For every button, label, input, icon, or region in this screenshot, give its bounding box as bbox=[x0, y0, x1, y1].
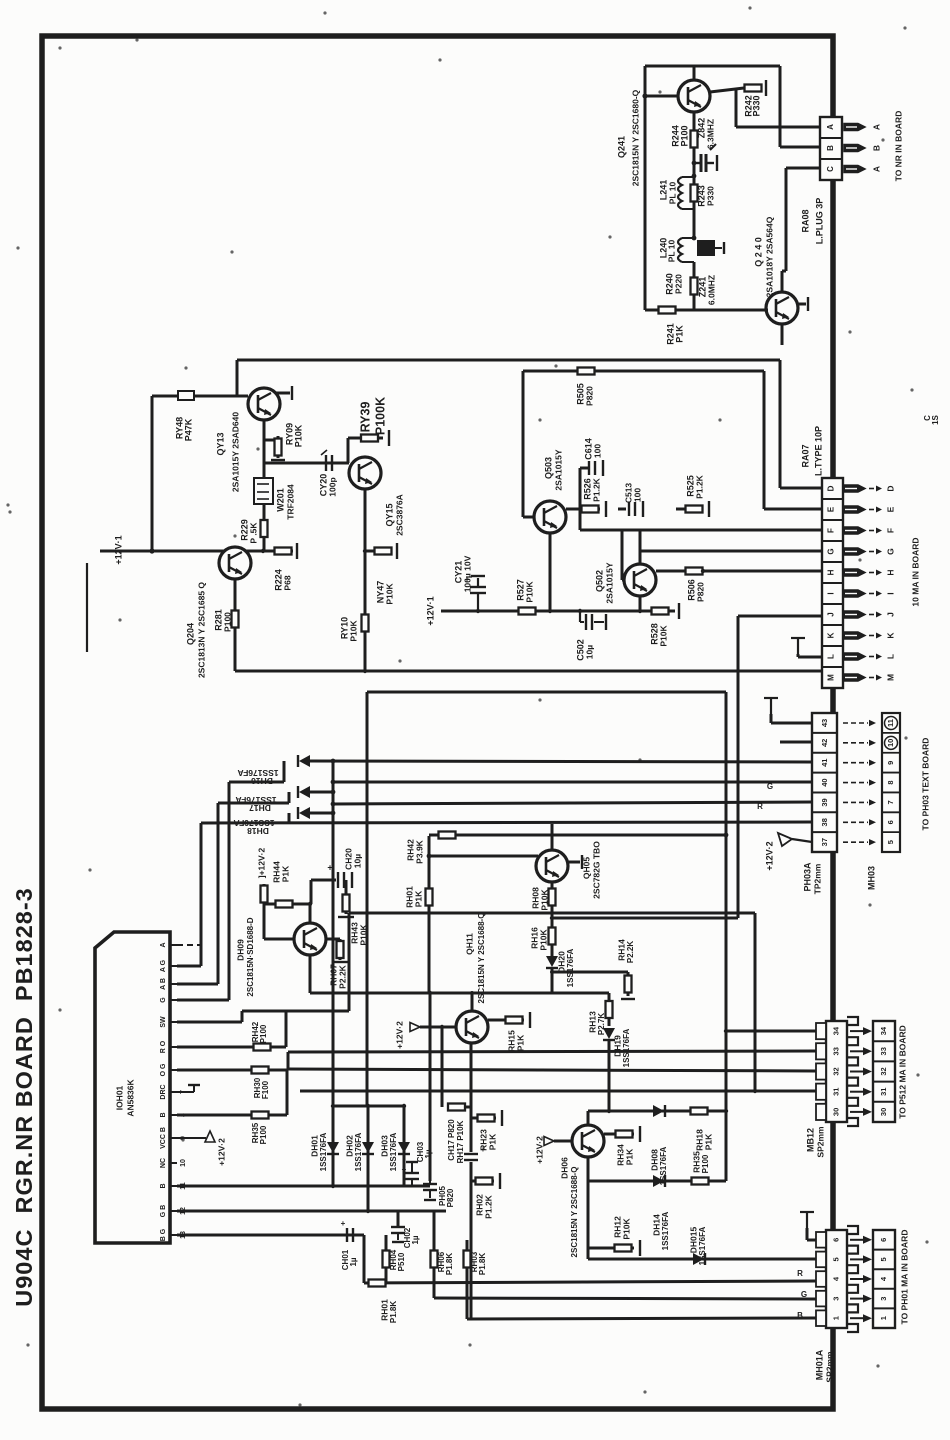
label R229 value bbox=[248, 522, 258, 544]
wire C branch h bbox=[782, 270, 786, 273]
label RH42b value bbox=[259, 1024, 268, 1043]
svg-text:Q241: Q241 bbox=[616, 136, 626, 158]
wire top rail bbox=[237, 359, 780, 362]
svg-text:PH03A: PH03A bbox=[802, 862, 812, 892]
wire x349 up bbox=[348, 913, 351, 1011]
label CH17 bbox=[447, 1119, 456, 1161]
svg-text:10: 10 bbox=[180, 1159, 187, 1167]
junction DH03 bus bbox=[402, 1104, 406, 1108]
svg-text:RH35: RH35 bbox=[691, 1151, 701, 1173]
wire Q240 top bbox=[781, 271, 784, 292]
label RH18 value bbox=[703, 1133, 713, 1150]
junction y1111 bbox=[607, 1109, 611, 1113]
svg-text:P820: P820 bbox=[584, 386, 594, 406]
wire RY39 drop bbox=[347, 438, 350, 463]
svg-text:F: F bbox=[885, 528, 895, 533]
svg-text:31: 31 bbox=[831, 1088, 840, 1096]
label R528 bbox=[649, 623, 659, 645]
label TO PH03 TEXT BOARD bbox=[920, 738, 930, 831]
label RH42 bbox=[405, 839, 415, 861]
svg-text:P820: P820 bbox=[446, 1188, 455, 1207]
wire y913 bbox=[349, 912, 755, 915]
label TO PH01 MA IN BOARD bbox=[899, 1230, 909, 1325]
pin RA07-G bbox=[843, 548, 895, 555]
label RA07 bbox=[800, 444, 810, 467]
svg-text:P1.8K: P1.8K bbox=[445, 1253, 454, 1275]
wire DH09 base bbox=[264, 938, 294, 941]
svg-text:P220: P220 bbox=[673, 274, 683, 294]
label R281 bbox=[213, 609, 223, 631]
svg-text:3: 3 bbox=[879, 1297, 888, 1301]
pin RA07-K bbox=[843, 632, 895, 639]
hook L bbox=[791, 638, 805, 654]
svg-text:P100: P100 bbox=[259, 1125, 268, 1144]
wire pin1 dashed bbox=[177, 944, 200, 946]
svg-text:DH06: DH06 bbox=[559, 1157, 569, 1179]
svg-text:DH09: DH09 bbox=[235, 939, 245, 961]
svg-text:P1K: P1K bbox=[413, 890, 423, 907]
svg-text:G: G bbox=[160, 997, 167, 1003]
label RH34 bbox=[615, 1144, 625, 1166]
label DH08 type bbox=[659, 1146, 668, 1185]
IC pin NC 10 bbox=[160, 1158, 187, 1168]
IC pin R O bbox=[160, 1040, 177, 1053]
label CY21 bbox=[453, 561, 463, 584]
junction x726 y1111 bbox=[724, 1109, 728, 1113]
wire DH09 base drop bbox=[263, 904, 266, 939]
svg-text:33: 33 bbox=[879, 1047, 888, 1055]
junction pin11 DH01 bbox=[331, 1184, 335, 1188]
pin RA07-F bbox=[843, 527, 895, 534]
label PH05 value bbox=[446, 1188, 455, 1207]
terminal RY39 bbox=[388, 430, 390, 446]
label DH14 type bbox=[661, 1211, 670, 1250]
svg-text:E: E bbox=[885, 506, 895, 512]
label QY15 type bbox=[394, 494, 404, 536]
label DH16 bbox=[237, 768, 278, 778]
label NY47 bbox=[375, 581, 385, 604]
label R243 value bbox=[705, 186, 715, 206]
wire DH16 left v bbox=[283, 761, 286, 782]
junction QH11 base bbox=[440, 1025, 444, 1029]
diode DH18 bbox=[298, 807, 310, 819]
IC pin A G bbox=[160, 959, 177, 972]
wire pin2 to DH18col bbox=[177, 965, 201, 968]
symbol +12V-2 pin9 bbox=[177, 1131, 215, 1142]
svg-text:VCC B: VCC B bbox=[160, 1127, 167, 1149]
capacitor CY20 bbox=[321, 450, 332, 471]
label Q240 type bbox=[764, 216, 774, 297]
wire +12V-1 rail left bbox=[100, 550, 263, 553]
resistor RH03 bbox=[464, 1248, 471, 1270]
wire pin13 drop bbox=[363, 1235, 366, 1283]
wire bus 32 bbox=[287, 1069, 816, 1071]
label DH14 bbox=[651, 1214, 661, 1236]
svg-text:RY39: RY39 bbox=[358, 402, 372, 433]
pin RA07-J bbox=[843, 611, 895, 618]
svg-text:P68: P68 bbox=[282, 575, 292, 590]
wire E drop bbox=[763, 371, 766, 509]
label RH30 bbox=[253, 1077, 262, 1098]
label RH07 bbox=[328, 964, 338, 986]
wire QH06 emitter bbox=[587, 1157, 590, 1259]
junction QH11 c bbox=[470, 991, 474, 995]
resistor R527 bbox=[512, 608, 542, 615]
svg-text:7: 7 bbox=[886, 800, 895, 804]
transistor Q241 bbox=[678, 80, 710, 112]
junction left rail bbox=[149, 548, 154, 553]
pin RA07-L bbox=[843, 653, 895, 660]
label Z842 bbox=[696, 118, 706, 139]
wire CH02 stub bbox=[397, 1211, 400, 1226]
label RH01a bbox=[404, 886, 414, 908]
diode DH01 bbox=[327, 1142, 339, 1154]
resistor RH14 bbox=[625, 972, 632, 996]
wire osc right bbox=[779, 66, 782, 147]
svg-text:2SA1018Y 2SA564Q: 2SA1018Y 2SA564Q bbox=[764, 216, 774, 297]
svg-text:RH13: RH13 bbox=[587, 1011, 597, 1033]
arrow MB12-34 bbox=[850, 1027, 872, 1035]
svg-text:MH03: MH03 bbox=[866, 866, 876, 890]
resistor RH13 bbox=[606, 993, 613, 1026]
svg-text:CH17 P820: CH17 P820 bbox=[447, 1119, 456, 1161]
label RY39 bbox=[358, 402, 372, 433]
label QH05 bbox=[581, 857, 591, 879]
svg-text:1S: 1S bbox=[931, 414, 940, 424]
label DH16 name bbox=[251, 776, 273, 786]
svg-text:B G: B G bbox=[160, 1228, 167, 1241]
resistor RH15 bbox=[504, 1017, 524, 1024]
connector MH03 bbox=[882, 713, 900, 852]
capacitor CH17 bbox=[463, 1145, 486, 1162]
wire R240 to bottom bbox=[693, 295, 696, 310]
svg-text:L.PLUG 3P: L.PLUG 3P bbox=[814, 198, 824, 245]
wire D drop bbox=[779, 360, 782, 488]
label RH35 value bbox=[701, 1154, 710, 1173]
svg-text:34: 34 bbox=[831, 1026, 840, 1035]
label RH13 value bbox=[597, 1013, 606, 1035]
label QY13 bbox=[215, 432, 225, 455]
svg-text:MH01A: MH01A bbox=[814, 1349, 824, 1380]
svg-text:P2.2K: P2.2K bbox=[337, 964, 347, 988]
terminal R224 bbox=[296, 543, 298, 559]
svg-text:100p: 100p bbox=[327, 477, 337, 496]
wire Q503 left vert bbox=[522, 371, 525, 517]
wire QH06 base bbox=[554, 1140, 572, 1143]
wire RH06 bot bbox=[433, 1270, 436, 1298]
wire DH18 tap bbox=[288, 813, 291, 823]
wire y993 bbox=[310, 992, 609, 995]
svg-text:B: B bbox=[826, 145, 835, 151]
svg-text:AN5836K: AN5836K bbox=[125, 1078, 135, 1116]
arrow PH03A-4 bbox=[843, 799, 876, 805]
IC pin SW bbox=[160, 1016, 177, 1028]
label RH07 value bbox=[337, 964, 347, 988]
label Q241 type bbox=[630, 89, 640, 186]
wire C branch bbox=[785, 168, 788, 271]
label RH08 value bbox=[539, 889, 549, 911]
svg-text:41: 41 bbox=[820, 759, 829, 767]
svg-text:A: A bbox=[871, 124, 881, 130]
diode DH14 bbox=[653, 1175, 665, 1187]
svg-text:3: 3 bbox=[831, 1297, 840, 1301]
label QY13 type bbox=[230, 412, 240, 492]
label CH03 bbox=[416, 1141, 425, 1162]
label RH43 value bbox=[358, 924, 368, 946]
arrow PH03A-2 bbox=[843, 760, 876, 766]
svg-text:+12V·1: +12V·1 bbox=[113, 535, 123, 564]
label Q240 bbox=[753, 237, 763, 267]
label +12V-2 pin9 bbox=[216, 1138, 226, 1166]
capacitor CH03 bbox=[402, 1162, 419, 1186]
label QH05 type bbox=[591, 841, 601, 899]
wire CH20 vert bbox=[310, 880, 313, 904]
svg-text:DRC: DRC bbox=[160, 1084, 167, 1099]
capacitor CH02 bbox=[391, 1227, 405, 1242]
label QH06 type bbox=[570, 1167, 579, 1258]
transistor Q502 bbox=[624, 564, 656, 596]
svg-text:B: B bbox=[797, 1311, 803, 1320]
label CY20 bbox=[318, 474, 328, 497]
label Q503 type bbox=[553, 449, 563, 490]
wire bus 1283 bbox=[364, 1281, 816, 1283]
svg-text:2SA1015Y: 2SA1015Y bbox=[604, 562, 614, 603]
svg-text:L.TYPE 10P: L.TYPE 10P bbox=[813, 426, 823, 476]
svg-text:P1K: P1K bbox=[515, 1034, 525, 1051]
transistor QH05 bbox=[536, 850, 568, 882]
resistor RH35b bbox=[250, 1112, 270, 1119]
label R229 bbox=[239, 519, 249, 541]
wire bus 33 bbox=[288, 1051, 816, 1052]
svg-text:O G: O G bbox=[160, 1063, 167, 1076]
junction L241 top bbox=[692, 174, 697, 179]
pin RA07-E bbox=[843, 506, 895, 513]
svg-text:1µ: 1µ bbox=[349, 1257, 358, 1266]
label W201 bbox=[275, 488, 285, 512]
svg-text:DH16: DH16 bbox=[251, 776, 273, 786]
wire RH04 top bbox=[385, 1235, 388, 1250]
resistor RH04 bbox=[383, 1248, 390, 1270]
wire line4 col bbox=[200, 823, 203, 966]
svg-text:+12V·2: +12V·2 bbox=[394, 1021, 404, 1049]
arrow MB12-32 bbox=[850, 1068, 872, 1076]
svg-text:I: I bbox=[885, 592, 895, 594]
svg-text:H: H bbox=[885, 569, 895, 575]
svg-text:Q503: Q503 bbox=[543, 457, 553, 479]
label CH20 value bbox=[352, 854, 362, 868]
svg-text:K: K bbox=[885, 632, 895, 639]
svg-text:42: 42 bbox=[820, 739, 829, 747]
IC pin DRC 7 bbox=[160, 1084, 187, 1099]
label C513 value bbox=[632, 488, 642, 502]
label MB12 pitch bbox=[815, 1126, 825, 1158]
wire Q502 collector bbox=[639, 530, 642, 564]
arrow +12V-2 cell37 bbox=[778, 833, 812, 846]
label W201 type bbox=[285, 484, 295, 520]
wire DH09 e2 bbox=[309, 955, 312, 993]
label RY48 bbox=[174, 417, 184, 439]
terminal C614 bbox=[602, 460, 604, 476]
wire DH17 line bbox=[308, 791, 333, 794]
svg-text:J: J bbox=[885, 612, 895, 617]
wire pin11 bbox=[177, 1185, 430, 1188]
svg-text:1SS176FA: 1SS176FA bbox=[354, 1132, 363, 1171]
label RH35b value bbox=[259, 1125, 268, 1144]
resistor RH30 bbox=[250, 1067, 270, 1074]
svg-text:DH20: DH20 bbox=[556, 951, 566, 973]
label R281 value bbox=[222, 612, 232, 632]
label R528 value bbox=[658, 625, 668, 647]
svg-text:38: 38 bbox=[820, 818, 829, 826]
terminal QY13 bbox=[291, 386, 293, 400]
junction QY15-NY47 bbox=[363, 549, 367, 553]
svg-text:P3.9K: P3.9K bbox=[414, 839, 424, 863]
wire RH01 col low bbox=[429, 993, 432, 1181]
terminal RH14 bbox=[621, 998, 635, 1000]
svg-text:P47K: P47K bbox=[183, 418, 193, 441]
junction pin12 DH02 bbox=[366, 1209, 370, 1213]
resistor R224 bbox=[273, 548, 293, 555]
label RY09 value bbox=[293, 424, 303, 447]
svg-text:30: 30 bbox=[879, 1108, 888, 1116]
hook MH01A bbox=[800, 1212, 814, 1228]
arrow MH01A-1 bbox=[850, 1314, 872, 1322]
svg-text:TO PH01 MA IN BOARD: TO PH01 MA IN BOARD bbox=[899, 1230, 909, 1325]
resistor NY47 bbox=[374, 548, 392, 555]
wire line4 bbox=[201, 822, 812, 823]
label CH03 value bbox=[424, 1149, 433, 1158]
svg-text:+12V·2: +12V·2 bbox=[764, 841, 774, 870]
label R244 bbox=[670, 125, 680, 147]
label RH14 bbox=[616, 939, 626, 961]
IC pin G B 12 bbox=[160, 1205, 187, 1217]
wire RH42 row bbox=[429, 834, 726, 837]
svg-text:31: 31 bbox=[879, 1088, 888, 1096]
svg-text:33: 33 bbox=[831, 1047, 840, 1055]
transistor DH09 bbox=[294, 923, 326, 955]
connector MB12 bbox=[816, 1017, 858, 1126]
svg-text:B: B bbox=[871, 145, 881, 151]
label RH13 bbox=[587, 1011, 597, 1033]
label +12V-2 cell37 bbox=[764, 841, 774, 870]
wire left vertical bbox=[151, 396, 154, 551]
wire C614 stub bbox=[580, 467, 588, 470]
svg-text:10 MA IN BOARD: 10 MA IN BOARD bbox=[910, 537, 920, 606]
label RH06 value bbox=[445, 1253, 454, 1275]
wire osc bottom bbox=[645, 309, 768, 312]
svg-text:2SC3876A: 2SC3876A bbox=[394, 494, 404, 536]
label RH16 bbox=[529, 927, 539, 949]
wire DH14 row bbox=[588, 1180, 726, 1183]
svg-text:6: 6 bbox=[886, 820, 895, 824]
label RH03 value bbox=[478, 1253, 487, 1275]
wire hook MH01A h bbox=[807, 1239, 816, 1242]
label B MH01A bbox=[797, 1311, 803, 1320]
label CH01 value bbox=[349, 1257, 358, 1266]
svg-text:SP2mm: SP2mm bbox=[824, 1351, 834, 1383]
terminal RH07 bbox=[332, 961, 348, 963]
svg-text:K: K bbox=[827, 632, 836, 638]
svg-text:6.0MHZ: 6.0MHZ bbox=[706, 275, 716, 305]
transistor QY13 bbox=[248, 388, 280, 420]
svg-text:TRF2084: TRF2084 bbox=[285, 484, 295, 520]
label RH30 value bbox=[261, 1080, 270, 1099]
resistor RH34 bbox=[614, 1131, 634, 1138]
resistor RH35 bbox=[688, 1178, 712, 1185]
arrow +12V-2 QH06 bbox=[544, 1137, 554, 1146]
wire x755 down bbox=[754, 913, 757, 1091]
wire L240 to R240 bbox=[693, 262, 696, 277]
label R MH01A bbox=[797, 1269, 803, 1278]
svg-text:P330: P330 bbox=[705, 186, 715, 206]
label +12V-2 DH09 bbox=[256, 847, 266, 878]
svg-text:G: G bbox=[885, 548, 895, 555]
terminal R525 bbox=[708, 501, 710, 517]
terminal QH05 bbox=[581, 855, 583, 869]
svg-text:P1.8K: P1.8K bbox=[478, 1253, 487, 1275]
svg-text:PL 10: PL 10 bbox=[667, 181, 677, 204]
svg-text:QH11: QH11 bbox=[464, 933, 474, 955]
svg-text:A: A bbox=[826, 124, 835, 130]
svg-text:P10K: P10K bbox=[293, 424, 303, 447]
label RH01b value bbox=[389, 1301, 398, 1323]
svg-text:P1.8K: P1.8K bbox=[389, 1301, 398, 1323]
wire DH18 line bbox=[308, 812, 333, 815]
wire cell5 bus bbox=[588, 1258, 816, 1261]
pin RA08-A bbox=[844, 124, 881, 131]
svg-text:L: L bbox=[885, 654, 895, 659]
resistor RH02 bbox=[474, 1178, 494, 1185]
svg-text:M: M bbox=[885, 674, 895, 681]
label TO NR IN BOARD bbox=[893, 111, 903, 182]
junction CY21 bbox=[476, 609, 480, 613]
label Z241 freq bbox=[706, 275, 716, 305]
wire pin13 bbox=[177, 1234, 364, 1237]
svg-text:M: M bbox=[827, 674, 836, 681]
label DH19 type bbox=[622, 1028, 631, 1067]
terminal R526 bbox=[605, 501, 607, 517]
wire DH17 left h bbox=[218, 802, 289, 805]
wire RH02 row bbox=[471, 1180, 476, 1183]
svg-text:P100: P100 bbox=[679, 125, 689, 146]
label MH01A bbox=[814, 1349, 824, 1380]
wire QH11 base branch bbox=[441, 1027, 444, 1107]
resistor RH12 bbox=[612, 1245, 634, 1252]
wire J vert bbox=[737, 616, 740, 918]
svg-text:39: 39 bbox=[820, 798, 829, 806]
arrow PH03A-6 bbox=[843, 839, 876, 845]
label DH17 bbox=[235, 795, 276, 805]
label MH03 bbox=[866, 866, 876, 890]
label RH17 bbox=[456, 1120, 465, 1163]
label R224 value bbox=[282, 575, 292, 590]
wire cell34 h bbox=[726, 1030, 816, 1033]
arrow MB12-30 bbox=[850, 1108, 872, 1116]
wire QY13 top-left bbox=[152, 395, 248, 398]
svg-text:P1.2K: P1.2K bbox=[591, 477, 601, 501]
svg-text:P .5K: P .5K bbox=[248, 522, 258, 544]
svg-text:F100: F100 bbox=[261, 1080, 270, 1099]
label DH09 type bbox=[246, 917, 255, 996]
label CH02 bbox=[403, 1227, 412, 1248]
label RH04 value bbox=[397, 1252, 406, 1271]
resistor RH23 bbox=[476, 1115, 496, 1122]
wire DH03 col bbox=[403, 1106, 406, 1186]
wire CH20 h bbox=[311, 879, 336, 882]
svg-text:TO PH03 TEXT BOARD: TO PH03 TEXT BOARD bbox=[920, 738, 930, 831]
wire QH11 collector bbox=[471, 993, 474, 1011]
capacitor CY21 bbox=[464, 574, 486, 611]
